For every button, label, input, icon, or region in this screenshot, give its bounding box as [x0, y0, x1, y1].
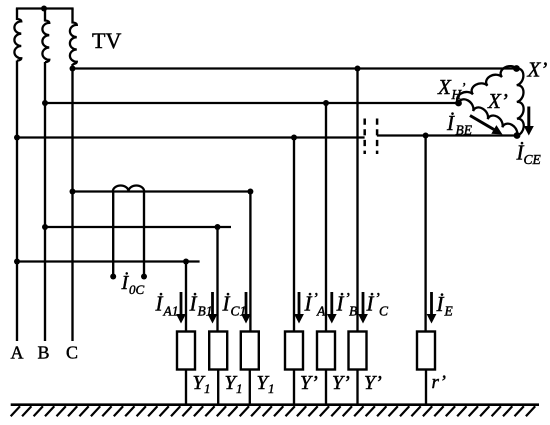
svg-text:r’: r’	[432, 372, 446, 393]
resistor Y'-2 (box)	[317, 332, 335, 370]
svg-text:B: B	[37, 343, 49, 363]
svg-text:İ: İ	[366, 292, 375, 316]
node: junction phase A / tap wire	[14, 259, 20, 265]
wire: drop to resistor Y1-2	[216, 227, 218, 332]
svg-text:A1: A1	[163, 304, 179, 319]
svg-text:1: 1	[236, 381, 243, 396]
resistor Y'-3 (box)	[349, 332, 367, 370]
arrow: I'C current arrow	[362, 292, 365, 316]
node: triangle top vertex X'	[513, 65, 520, 72]
arrow: IB1 current arrow	[211, 292, 214, 316]
svg-text:1: 1	[204, 381, 211, 396]
resistor Y1-3 (box)	[241, 332, 259, 370]
svg-text:’: ’	[461, 80, 466, 95]
resistor Y1-2 (box)	[209, 332, 227, 370]
svg-text:A: A	[11, 343, 24, 363]
wire: drop to resistor Y'-3	[356, 69, 358, 332]
inductor: delta winding top side XH'-X'	[457, 66, 516, 103]
svg-text:A: A	[316, 304, 326, 319]
wire: resistor Y1-3 to ground	[249, 370, 251, 405]
ground: hatching	[11, 406, 536, 416]
node: triangle bottom vertex	[514, 132, 521, 139]
svg-text:B1: B1	[198, 304, 213, 319]
inductor: TV primary winding, phase C	[70, 23, 77, 65]
arrow: ICE current arrow (down, right of triangle)	[527, 107, 530, 128]
svg-text:C: C	[379, 304, 389, 319]
wire: resistor Y1-2 to ground	[217, 370, 219, 405]
node: junction CT wire / drop wire 3	[247, 189, 253, 195]
node: junction tap A / drop wire 1	[183, 259, 189, 265]
wire: phase C vertical upper stub	[71, 9, 73, 24]
wire: CT primary horizontal (phase C tap)	[73, 190, 251, 192]
arrow: IE current arrow	[430, 292, 433, 316]
svg-text:Y’: Y’	[300, 372, 318, 394]
node: junction phase B / tap wire	[42, 224, 48, 230]
svg-text:TV: TV	[92, 28, 121, 53]
svg-text:Y’: Y’	[364, 372, 382, 394]
svg-text:BE: BE	[456, 123, 473, 138]
svg-text:C1: C1	[231, 304, 247, 319]
wire: drop to resistor Y'-2	[325, 103, 327, 332]
wire: bus 3 right segment from capacitor to triangle bottom vertex	[377, 134, 517, 136]
node: junction bus 2 / drop 5	[323, 100, 329, 106]
inductor: TV primary winding, phase A	[14, 19, 21, 61]
svg-text:Y’: Y’	[332, 372, 350, 394]
svg-text:X: X	[437, 75, 452, 99]
wire: phase B horizontal tap	[45, 226, 231, 228]
wire: resistor Y'-2 to ground	[325, 370, 327, 405]
resistor Y'-1 (box)	[285, 332, 303, 370]
node: triangle left vertex XH'	[455, 100, 462, 107]
wire: phase A horizontal tap	[17, 260, 200, 262]
svg-text:C: C	[66, 343, 78, 363]
node: junction bus 3 / drop 4	[291, 135, 297, 141]
svg-text:E: E	[444, 304, 454, 319]
wire: phase B vertical upper stub	[44, 9, 46, 22]
wire: drop to resistor Y1-1	[185, 262, 187, 332]
inductor: CT winding (two arcs) on primary wire	[113, 186, 144, 192]
inductor: TV primary winding, phase B	[42, 21, 49, 63]
wire: phase B vertical main	[44, 62, 46, 341]
svg-text:İ: İ	[222, 292, 231, 316]
svg-text:B: B	[349, 304, 357, 319]
arrow: IBE current arrow	[470, 116, 494, 130]
wire: drop to resistor r'	[424, 136, 426, 332]
resistor Y1-1 (box)	[177, 332, 195, 370]
ground: earth line	[11, 403, 539, 406]
svg-text:İ: İ	[336, 292, 345, 316]
svg-text:İ: İ	[446, 111, 455, 135]
arrow: IC1 current arrow	[245, 292, 248, 316]
svg-text:0C: 0C	[129, 282, 145, 297]
wire: bus 3 left segment up to capacitor plate	[17, 136, 365, 138]
wire: drop to resistor Y'-1	[293, 138, 295, 332]
svg-text:İ: İ	[304, 292, 313, 316]
capacitor CE: dashed plate right	[376, 119, 379, 155]
wire: phase C vertical main	[71, 64, 73, 341]
node: junction bus 1 / drop 6	[355, 66, 361, 72]
svg-text:1: 1	[268, 381, 275, 396]
wire: resistor Y1-1 to ground	[185, 370, 187, 405]
svg-text:CE: CE	[524, 152, 542, 167]
node: junction phase C / bus 1	[70, 66, 76, 72]
capacitor CE: dashed plate left	[363, 119, 366, 155]
wire: bus 2 (middle horizontal) to triangle vertex XH'	[45, 102, 459, 104]
inductor: delta winding right side X'-X'	[517, 68, 524, 135]
node: CT secondary terminal dot left	[110, 274, 116, 280]
svg-text:X’: X’	[487, 89, 508, 113]
node: junction phase C / CT primary wire	[70, 189, 76, 195]
svg-text:X’: X’	[527, 58, 548, 82]
node: junction tap B / drop wire 2	[215, 224, 221, 230]
wire: resistor Y'-3 to ground	[356, 370, 358, 405]
svg-text:İ: İ	[189, 292, 198, 316]
wire: resistor Y'-1 to ground	[293, 370, 295, 405]
node: junction bus 3 right / drop 7	[423, 133, 429, 139]
arrow: I'A current arrow	[298, 292, 301, 316]
wire: bus 1 (top horizontal) to triangle vertex X'	[73, 67, 517, 69]
arrow: I'B current arrow	[330, 292, 333, 316]
wire: CT secondary terminal right	[143, 192, 145, 277]
wire: phase A vertical main	[16, 61, 18, 342]
svg-text:İ: İ	[436, 292, 445, 316]
node: CT secondary terminal dot right	[141, 274, 147, 280]
wire: CT secondary terminal left	[112, 192, 114, 277]
wire: drop to resistor Y1-3	[249, 192, 251, 332]
arrow: IA1 current arrow	[180, 292, 183, 316]
resistor r' (box)	[417, 332, 435, 370]
node: junction on phase B at top	[41, 6, 47, 12]
node: junction phase B / bus 2	[42, 100, 48, 106]
wire: phase A vertical upper stub	[16, 9, 18, 21]
node: junction phase A / bus 3	[14, 135, 20, 141]
inductor: delta winding bottom side XH'-CE	[459, 99, 518, 135]
wire: top jumper connecting phase A, B, C	[16, 7, 74, 9]
svg-text:İ: İ	[155, 292, 164, 316]
wire: resistor r' to ground	[425, 370, 427, 405]
